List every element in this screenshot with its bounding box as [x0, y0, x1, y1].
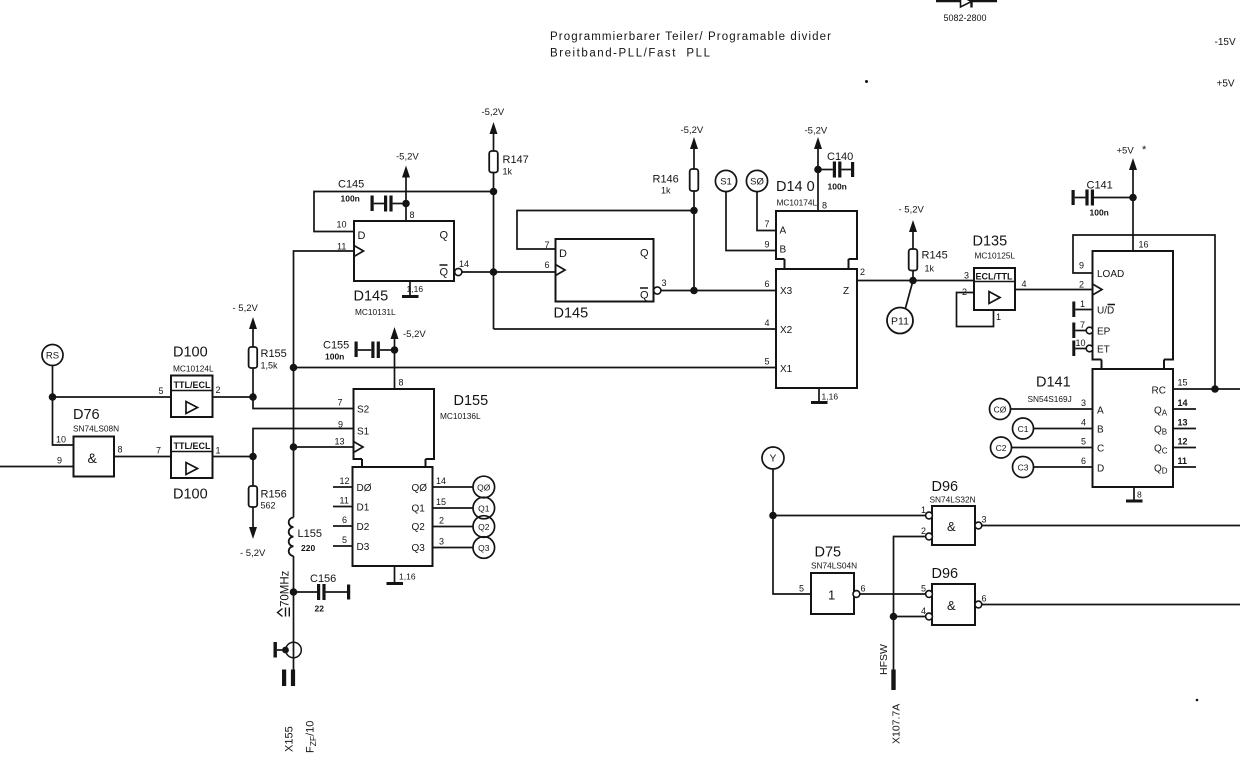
wire R147 down to X2 line — [493, 173, 495, 330]
svg-text:X3: X3 — [780, 286, 793, 297]
svg-text:3: 3 — [964, 271, 969, 281]
converter D135 ECL/TTL — [973, 234, 1016, 311]
svg-text:&: & — [88, 450, 98, 466]
svg-text:D3: D3 — [357, 542, 370, 553]
wire left edge to D76 pin9 — [0, 466, 74, 468]
node Q1 — [473, 497, 495, 519]
converter D100 (upper TTL/ECL) — [171, 345, 214, 418]
svg-text:SN74LS32N: SN74LS32N — [930, 495, 976, 505]
speck artifact 2 — [1196, 699, 1199, 702]
wire D100b pin1 to R156 node — [213, 456, 254, 458]
power -5,2V above D155 pin8 — [391, 327, 427, 389]
svg-text:8: 8 — [118, 445, 123, 455]
svg-text:A: A — [780, 226, 787, 237]
svg-text:SN54S169J: SN54S169J — [1028, 394, 1072, 404]
svg-text:MC10174L: MC10174L — [777, 198, 818, 208]
node C1 — [1013, 418, 1034, 439]
svg-text:8: 8 — [1137, 490, 1142, 500]
svg-text:B: B — [1097, 425, 1104, 436]
svg-text:B: B — [780, 245, 787, 256]
svg-text:MC10125L: MC10125L — [975, 251, 1016, 261]
svg-text:1k: 1k — [925, 264, 935, 274]
svg-text:MC10136L: MC10136L — [440, 411, 481, 421]
wire Y down to D75 pin5 — [773, 469, 811, 594]
svg-text:D100: D100 — [173, 487, 208, 503]
flip-flop D145 (second) — [554, 239, 654, 322]
power -5,2V below R156 — [240, 507, 266, 559]
svg-text:11: 11 — [340, 496, 349, 506]
svg-text:16: 16 — [1139, 240, 1149, 250]
wire Q1 pin15 to node — [433, 507, 474, 509]
svg-text:2: 2 — [439, 516, 444, 526]
label 70MHz (rotated) — [278, 570, 292, 616]
svg-text:D76: D76 — [73, 407, 100, 423]
svg-text:Q3: Q3 — [478, 543, 490, 553]
resistor R146 1k — [653, 169, 699, 196]
ground D155 pins 1,16 — [387, 566, 416, 584]
svg-text:D145: D145 — [354, 289, 389, 305]
svg-text:TTL/ECL: TTL/ECL — [174, 441, 211, 451]
wire LOAD pin9 feedback loop from RC — [1073, 235, 1215, 389]
svg-text:5: 5 — [1081, 437, 1086, 447]
inductor L155 220 — [289, 518, 322, 556]
stub QD pin11 — [1173, 466, 1196, 468]
wire to D155 clock pin13 — [294, 446, 354, 448]
svg-text:Y: Y — [770, 454, 777, 465]
junction C141/power — [1129, 194, 1137, 202]
svg-text:HFSW: HFSW — [878, 644, 890, 675]
svg-text:P11: P11 — [891, 316, 909, 328]
wire RS down to junction — [52, 366, 54, 398]
svg-text:6: 6 — [1081, 456, 1086, 466]
wire D75 pin6 to D96b pin5 — [860, 593, 926, 595]
svg-text:5082-2800: 5082-2800 — [944, 13, 987, 23]
flip-flop D145 (first) — [354, 221, 455, 317]
svg-text:D96: D96 — [932, 479, 959, 495]
svg-text:7: 7 — [338, 398, 343, 408]
svg-text:3: 3 — [982, 515, 987, 525]
node C0 — [990, 399, 1011, 420]
node P11 — [887, 281, 913, 334]
wire feedback R147 node to D145a pin10 — [314, 192, 494, 232]
svg-text:1k: 1k — [503, 167, 513, 177]
svg-text:2: 2 — [921, 526, 926, 536]
resistor R145 1k — [909, 249, 948, 281]
stub EP pin7 — [1072, 320, 1092, 338]
or-gate D96 (upper) — [926, 479, 982, 545]
mux D140 control block — [776, 179, 857, 269]
svg-text:C: C — [1097, 444, 1104, 455]
svg-text:-5,2V: -5,2V — [482, 107, 505, 118]
svg-text:1k: 1k — [661, 186, 671, 196]
svg-text:Q: Q — [640, 290, 649, 302]
svg-text:7: 7 — [765, 219, 770, 229]
svg-text:D14 0: D14 0 — [776, 179, 815, 195]
svg-text:6: 6 — [545, 260, 550, 270]
stub D3 pin5 — [333, 545, 353, 547]
wire junction down to D76 pin10 — [53, 397, 74, 445]
power -5,2V above D140 pin8 — [805, 126, 828, 212]
power +5V above D141 pin16 — [1117, 144, 1148, 251]
divider D155 control block — [354, 389, 489, 467]
svg-text:R156: R156 — [261, 489, 287, 501]
svg-text:L155: L155 — [298, 528, 322, 540]
junction C140/power — [814, 166, 822, 174]
svg-text:15: 15 — [436, 497, 446, 507]
wire L155 to coax — [293, 556, 295, 670]
wire Y node to D96a pin1 — [773, 515, 926, 517]
junction HFSW — [890, 613, 898, 621]
svg-text:U/D: U/D — [1097, 306, 1114, 317]
svg-text:S1: S1 — [357, 427, 370, 438]
stub U/D pin1 — [1072, 299, 1092, 317]
svg-text:Q1: Q1 — [478, 504, 490, 514]
svg-text:7: 7 — [1080, 320, 1085, 330]
svg-text:100n: 100n — [325, 352, 344, 362]
svg-text:9: 9 — [765, 240, 770, 250]
wire C1 to B pin4 — [1034, 428, 1093, 430]
svg-text:13: 13 — [1178, 418, 1188, 428]
svg-text:- 5,2V: - 5,2V — [240, 548, 266, 559]
resistor R155 1,5k — [249, 347, 287, 397]
wire Z output to D135 pin3 — [857, 280, 974, 282]
svg-text:EP: EP — [1097, 327, 1111, 338]
junction RS node — [49, 393, 57, 401]
svg-text:1: 1 — [921, 505, 926, 515]
node Q3 — [473, 537, 495, 559]
node C3 — [1013, 457, 1034, 478]
svg-text:Q1: Q1 — [412, 504, 426, 515]
connector pin X107.7A — [891, 617, 895, 691]
node C2 — [991, 437, 1012, 458]
svg-text:1,16: 1,16 — [407, 284, 424, 294]
junction RC/loop — [1211, 385, 1219, 393]
svg-text:&: & — [947, 598, 956, 613]
resistor R147 1k — [489, 151, 529, 177]
ground D145a pins 1,16 — [402, 281, 423, 297]
svg-text:-5,2V: -5,2V — [403, 329, 426, 340]
svg-text:D: D — [358, 230, 366, 242]
stub QC pin12 — [1173, 447, 1196, 449]
junction R147/feedback — [490, 188, 498, 196]
svg-text:Q: Q — [440, 230, 449, 242]
diode V? 5082-2800 (cut off at top edge) — [936, 0, 997, 23]
wire X2 line to D140 pin4 — [494, 328, 777, 330]
stub QB pin13 — [1173, 428, 1196, 430]
svg-text:1: 1 — [828, 588, 835, 603]
wire R146 down to X3 line — [693, 191, 695, 291]
svg-text:C140: C140 — [827, 151, 853, 163]
svg-text:1,16: 1,16 — [822, 392, 839, 402]
wire S0 to D140 pin7 A — [757, 192, 776, 231]
svg-text:QC: QC — [1154, 444, 1168, 456]
and-gate D76 — [73, 407, 119, 477]
power -5,2V above R146 — [681, 125, 704, 169]
stub QA pin14 — [1173, 408, 1196, 410]
svg-text:C1: C1 — [1018, 424, 1029, 434]
junction R155/D100a — [249, 393, 257, 401]
node Q2 — [473, 516, 495, 538]
svg-text:C2: C2 — [996, 443, 1007, 453]
node Y — [762, 447, 784, 469]
stub D1 pin11 — [333, 506, 353, 508]
svg-text:4: 4 — [921, 606, 926, 616]
stub D2 pin6 — [333, 525, 353, 527]
svg-text:QØ: QØ — [477, 483, 491, 493]
svg-text:D100: D100 — [173, 345, 208, 361]
wire X1 long line to D140 pin5 — [294, 367, 777, 369]
svg-text:Breitband-PLL/Fast PLL: Breitband-PLL/Fast PLL — [550, 48, 711, 60]
svg-text:1,16: 1,16 — [399, 572, 416, 582]
svg-text:Programmierbarer Teiler/ Progr: Programmierbarer Teiler/ Programable div… — [550, 31, 831, 43]
svg-text:100n: 100n — [341, 194, 360, 204]
svg-text:9: 9 — [1079, 261, 1084, 271]
capacitor C145 100n — [338, 179, 406, 212]
svg-text:QD: QD — [1154, 464, 1168, 476]
svg-text:DØ: DØ — [357, 483, 372, 494]
divider D155 output block — [353, 467, 433, 566]
svg-text:6: 6 — [982, 594, 987, 604]
svg-text:5: 5 — [342, 535, 347, 545]
svg-text:MC10131L: MC10131L — [355, 307, 396, 317]
junction C145/power — [402, 200, 410, 208]
svg-text:11: 11 — [1178, 456, 1188, 466]
svg-text:12: 12 — [340, 476, 350, 486]
svg-text:Q: Q — [440, 267, 449, 279]
svg-text:-5,2V: -5,2V — [805, 126, 828, 137]
svg-text:5: 5 — [159, 386, 164, 396]
svg-text:1: 1 — [216, 446, 221, 456]
svg-text:R145: R145 — [922, 250, 948, 262]
svg-text:3: 3 — [662, 278, 667, 288]
capacitor C155 100n — [323, 340, 395, 362]
svg-text:2: 2 — [216, 385, 221, 395]
svg-text:FZF/10: FZF/10 — [305, 721, 319, 753]
svg-text:D145: D145 — [554, 306, 589, 322]
svg-text:C3: C3 — [1018, 463, 1029, 473]
wire D135 pin4 to D141 clock pin2 — [1015, 289, 1093, 291]
svg-text:11: 11 — [337, 242, 346, 252]
svg-text:3: 3 — [439, 537, 444, 547]
svg-text:QA: QA — [1154, 406, 1168, 418]
svg-text:D141: D141 — [1036, 375, 1071, 391]
svg-text:RS: RS — [46, 351, 59, 362]
svg-text:70MHz: 70MHz — [280, 570, 292, 607]
power -5,2V above R155 — [233, 303, 259, 347]
svg-text:C141: C141 — [1087, 180, 1113, 192]
svg-text:A: A — [1097, 406, 1104, 417]
wire power to D145a pin8 — [405, 204, 407, 222]
svg-text:14: 14 — [459, 259, 469, 269]
wire C3 to D pin6 — [1034, 466, 1093, 468]
svg-text:ECL/TTL: ECL/TTL — [976, 272, 1013, 282]
svg-text:1,5k: 1,5k — [261, 361, 279, 371]
svg-text:5: 5 — [765, 357, 770, 367]
svg-text:+5V: +5V — [1117, 146, 1135, 157]
svg-text:10: 10 — [337, 220, 347, 230]
wire C2 to C pin5 — [1012, 447, 1093, 449]
svg-text:5: 5 — [921, 584, 926, 594]
wire RC output to right edge — [1173, 388, 1240, 390]
svg-text:Q2: Q2 — [478, 522, 490, 532]
svg-text:D135: D135 — [973, 234, 1008, 250]
coax connector X155 — [274, 642, 302, 686]
svg-text:D: D — [1097, 464, 1104, 475]
svg-text:12: 12 — [1178, 437, 1188, 447]
svg-text:8: 8 — [410, 210, 415, 220]
svg-text:X155: X155 — [284, 726, 296, 752]
junction clock/C156 — [290, 588, 298, 596]
svg-text:X1: X1 — [780, 364, 793, 375]
node Q0 — [473, 476, 495, 498]
svg-text:-5,2V: -5,2V — [396, 152, 419, 163]
svg-text:6: 6 — [861, 584, 866, 594]
wire D100a pin2 to R155 node — [213, 396, 254, 398]
counter D141 output block — [1093, 369, 1174, 487]
capacitor C156 22 — [294, 573, 351, 614]
svg-text:C156: C156 — [310, 573, 336, 585]
output bubble pin14 — [455, 268, 462, 275]
svg-text:&: & — [947, 519, 956, 534]
junction C155/power — [391, 346, 399, 354]
output bubble pin3 — [654, 287, 661, 294]
svg-text:+5V: +5V — [1217, 79, 1235, 90]
svg-text:S2: S2 — [357, 405, 370, 416]
svg-text:2: 2 — [860, 267, 865, 277]
power -5,2V above C145 — [396, 152, 419, 204]
counter D141 control block — [1028, 251, 1174, 404]
svg-text:ET: ET — [1097, 345, 1110, 356]
node S0 — [746, 170, 767, 191]
junction Q14/R147 — [490, 268, 498, 276]
capacitor C140 100n — [818, 151, 854, 192]
wire Q2 pin2 to node — [433, 526, 474, 528]
title text — [550, 31, 831, 60]
svg-text:14: 14 — [1178, 398, 1188, 408]
junction Z/R145 — [909, 277, 917, 285]
node RS — [42, 345, 63, 366]
svg-text:100n: 100n — [1090, 208, 1109, 218]
svg-text:6: 6 — [765, 279, 770, 289]
wire node to D155 S1 — [253, 429, 354, 457]
svg-text:14: 14 — [436, 476, 446, 486]
svg-text:9: 9 — [57, 456, 62, 466]
svg-text:1: 1 — [996, 312, 1001, 322]
wire D96a output to right edge — [982, 525, 1240, 527]
power -5,2V above R145 — [899, 205, 925, 250]
stub ET pin10 — [1072, 338, 1092, 356]
wire node to D155 S2 — [253, 397, 354, 409]
speck artifact — [865, 80, 868, 83]
svg-text:QB: QB — [1154, 425, 1167, 437]
svg-text:R147: R147 — [503, 154, 529, 166]
svg-text:X107.7A: X107.7A — [891, 704, 903, 744]
svg-text:RC: RC — [1152, 386, 1166, 397]
svg-text:SN74LS08N: SN74LS08N — [73, 424, 119, 434]
wire HFSW node to D96b pin4 — [894, 616, 926, 618]
junction R146/X3 — [690, 287, 698, 295]
svg-text:4: 4 — [1081, 418, 1086, 428]
svg-text:X2: X2 — [780, 325, 793, 336]
svg-text:D75: D75 — [815, 545, 842, 561]
svg-text:QØ: QØ — [412, 483, 428, 494]
svg-text:C155: C155 — [323, 340, 349, 352]
wire Q14 to D145b clock pin6 — [462, 271, 556, 273]
svg-text:SØ: SØ — [750, 177, 764, 188]
svg-text:10: 10 — [1076, 338, 1086, 348]
converter D100 (lower TTL/ECL) — [171, 437, 213, 503]
svg-text:8: 8 — [822, 201, 827, 211]
svg-text:D96: D96 — [932, 566, 959, 582]
wire Q0 pin14 to node — [433, 486, 474, 488]
svg-text:D: D — [559, 248, 567, 260]
ground D140 pins 1,16 — [811, 388, 838, 403]
wire Q3 to D140 X3 pin6 — [661, 290, 776, 292]
svg-text:R146: R146 — [653, 174, 679, 186]
stub D0 pin12 — [333, 486, 353, 488]
svg-text:MC10124L: MC10124L — [173, 364, 214, 374]
junction clock/X1 — [290, 364, 298, 372]
svg-text:9: 9 — [338, 420, 343, 430]
wire Q3 pin3 to node — [433, 547, 474, 549]
wire S1 to D140 pin9 B — [726, 192, 776, 251]
wire D96b output to right edge — [982, 604, 1240, 606]
svg-text:S1: S1 — [720, 177, 732, 188]
svg-text:Q2: Q2 — [412, 522, 426, 533]
svg-text:D1: D1 — [357, 503, 370, 514]
svg-text:10: 10 — [56, 435, 66, 445]
resistor R156 562 — [249, 457, 287, 511]
svg-text:D155: D155 — [454, 393, 489, 409]
svg-text:2: 2 — [1079, 280, 1084, 290]
svg-text:1: 1 — [1080, 299, 1085, 309]
svg-text:5: 5 — [799, 584, 804, 594]
svg-text:-5,2V: -5,2V — [681, 125, 704, 136]
svg-text:Q: Q — [640, 248, 649, 260]
wire junction to D100a pin5 — [53, 396, 172, 398]
svg-text:220: 220 — [301, 543, 315, 553]
svg-text:Q3: Q3 — [412, 543, 426, 554]
node S1 — [715, 170, 736, 191]
ground D141 pin8 — [1126, 487, 1143, 501]
wire D135 pin2 feedback pin1 — [957, 293, 994, 327]
wire D96a pin2 down HFSW line — [894, 537, 926, 617]
svg-text:7: 7 — [156, 446, 161, 456]
power -5,2V above R147 — [482, 107, 505, 151]
inverter D75 — [811, 545, 860, 615]
svg-text:C145: C145 — [338, 179, 364, 191]
junction R146/feedback — [690, 207, 698, 215]
svg-text:TTL/ECL: TTL/ECL — [174, 380, 211, 390]
svg-text:R155: R155 — [261, 348, 287, 360]
svg-text:100n: 100n — [828, 182, 847, 192]
junction Y/D96a — [769, 512, 777, 520]
svg-text:D2: D2 — [357, 522, 370, 533]
svg-text:LOAD: LOAD — [1097, 269, 1124, 280]
svg-text:SN74LS04N: SN74LS04N — [811, 561, 857, 571]
svg-text:3: 3 — [1081, 398, 1086, 408]
svg-text:562: 562 — [261, 501, 276, 511]
svg-text:7: 7 — [545, 240, 550, 250]
svg-text:Z: Z — [843, 286, 849, 297]
or-gate D96 (lower) — [926, 566, 982, 625]
svg-text:22: 22 — [315, 604, 325, 614]
mux D140 main block — [776, 269, 857, 388]
wire D145a pin11 bend down main clock line — [294, 251, 354, 518]
svg-text:8: 8 — [399, 378, 404, 388]
svg-text:- 5,2V: - 5,2V — [233, 303, 259, 314]
wire C0 to A pin3 — [1011, 408, 1093, 410]
